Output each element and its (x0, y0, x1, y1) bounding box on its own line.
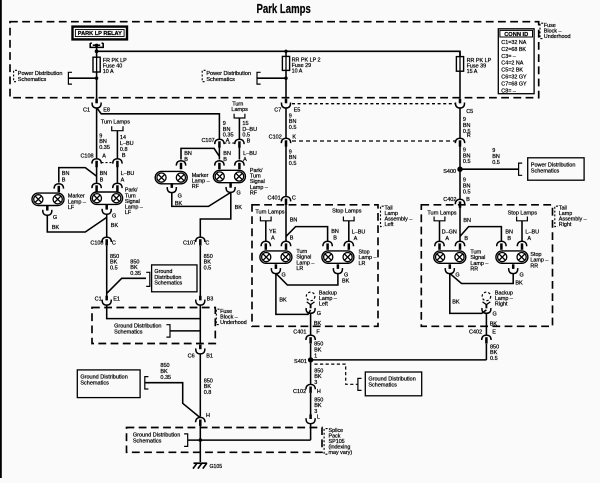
svg-text:C8= –: C8= – (501, 88, 516, 94)
wire: BN B to park lamp LF (96, 167, 98, 183)
svg-text:YE: YE (269, 229, 277, 235)
pin terminal turn RR B (455, 241, 464, 250)
svg-text:C: C (292, 195, 296, 201)
node: fuse 29 tap (284, 50, 287, 53)
label: 9 BN 0.5 (463, 178, 471, 196)
connector C402 pin B (443, 197, 470, 208)
svg-text:BN: BN (223, 151, 231, 157)
fuse 29 RR PK LP 2 (282, 56, 320, 74)
connector C108 pin B (113, 159, 122, 168)
wire: D-GN A (439, 221, 441, 242)
svg-text:L–BU: L–BU (243, 151, 257, 157)
label: L-BU A (park RF) (243, 151, 257, 163)
connector C102 pin H (293, 384, 321, 395)
wire: 9 BN 0.5 to C401 (285, 147, 287, 197)
svg-text:0.5: 0.5 (490, 356, 498, 362)
wire: BN B to park lamp RF (218, 147, 220, 160)
backup lamp left (reference) (306, 292, 315, 313)
svg-text:L–BU: L–BU (352, 230, 366, 236)
svg-text:Turn Lamps: Turn Lamps (101, 119, 130, 125)
dashed reference to GDS box (314, 364, 357, 384)
label: 850 BK 0.5 (490, 344, 499, 362)
svg-text:Left: Left (385, 222, 394, 228)
label: Park/Turn Signal Lamp - LF (125, 188, 143, 216)
label: YE A (269, 229, 277, 242)
label box: Power Distribution Schematics (right) (519, 158, 585, 180)
connector C108 pin A (80, 153, 106, 167)
wire: S400 branch to PDS box (460, 168, 519, 170)
svg-text:G: G (282, 272, 286, 278)
splice pack dashed box (127, 428, 323, 453)
connector C107 pin B (235, 139, 244, 148)
park/turn signal lamp LF (91, 192, 123, 204)
stop lamps bracket RR (517, 217, 528, 221)
node: relay output junction (95, 49, 99, 53)
wire: BK stop LR to turn LR (276, 274, 338, 285)
svg-text:B: B (290, 236, 294, 242)
svg-text:BK: BK (342, 279, 350, 285)
wire: left PDS tap (68, 77, 96, 79)
svg-text:C102: C102 (269, 134, 282, 140)
connector C5 (455, 99, 473, 115)
relay contact symbol (90, 43, 103, 52)
wire: L-BU A to park lamp RF (238, 147, 240, 160)
pin terminal turn LR B (281, 241, 290, 250)
svg-text:B: B (333, 236, 337, 242)
stop lamp LR (322, 251, 354, 263)
label box: Ground Distribution Schematics (upper) (146, 265, 197, 292)
label: Turn Signal Lamp - LR (296, 249, 314, 272)
svg-text:G: G (455, 272, 459, 278)
wire: BN branch to stop lamp (286, 227, 328, 242)
connector C401 pin F (293, 329, 320, 343)
wire: BK marker RF to junction (172, 192, 231, 206)
pin terminal stop LR A (344, 241, 353, 250)
svg-text:C402: C402 (443, 197, 456, 203)
label box: Ground Distribution Schematics (S401) (358, 372, 422, 396)
svg-text:B3: B3 (207, 296, 214, 302)
label: 850 BK 0.8 (204, 378, 213, 396)
svg-text:Schematics: Schematics (206, 77, 235, 83)
connector C401 pin C (268, 195, 296, 205)
wire: 850 BK 0.8 down (199, 354, 201, 417)
svg-text:BK: BK (235, 205, 243, 211)
wire: fuse 40 column (96, 51, 98, 99)
label: 9 BN 0.5 (289, 149, 297, 167)
label: 850 BK 3 (314, 368, 323, 386)
label: 850 BK 0.5 (204, 254, 213, 272)
svg-text:B: B (464, 236, 468, 242)
svg-text:C102: C102 (293, 389, 306, 395)
label: Park/Turn Signal Lamp - RF (250, 168, 268, 196)
wire: ground drop (199, 426, 201, 463)
svg-text:L–BU: L–BU (525, 229, 539, 235)
wire: 9 BN 0.5 S400 to C402 (459, 169, 461, 199)
svg-text:G: G (237, 190, 241, 196)
connector C6 pin B1 (188, 345, 213, 360)
svg-text:PARK LP RELAY: PARK LP RELAY (78, 31, 122, 37)
label: Power Distribution Schematics (left) (14, 70, 72, 84)
connector C107 pin A (201, 138, 229, 148)
turn lamps feed bracket (left) (112, 126, 123, 130)
svg-text:A: A (271, 236, 275, 242)
svg-text:BK: BK (490, 321, 498, 327)
connector C1 pin E1 (95, 296, 120, 305)
svg-text:0.8: 0.8 (120, 147, 128, 153)
svg-text:BN: BN (331, 229, 339, 235)
fuse 39 RR PK LP (456, 57, 491, 75)
svg-text:3: 3 (314, 380, 317, 386)
label: D-GN A (442, 229, 457, 242)
svg-text:B: B (62, 177, 66, 183)
wire: 9 BN 0.5 C7 to C102 (285, 108, 287, 139)
stop lamp RR (496, 251, 528, 263)
svg-text:RF: RF (192, 184, 200, 190)
label: Marker Lamp - RF (192, 173, 210, 190)
pin terminal park LF B (92, 183, 101, 192)
svg-text:B1: B1 (206, 353, 213, 359)
svg-text:Lamps: Lamps (231, 107, 248, 113)
pin terminal stop LR B (323, 241, 332, 250)
svg-text:0.35: 0.35 (160, 375, 171, 381)
wire: 9 BN 0.5 R to S400 (459, 147, 461, 170)
label box: Ground Distribution Schematics (lower left) (77, 370, 148, 398)
connector C107 pin C (183, 237, 209, 246)
svg-text:Schematics: Schematics (114, 329, 143, 335)
label: 9 BN 0.5 (branch) (492, 148, 500, 166)
label: 850 BK 0.5 (110, 254, 119, 272)
wire: ground bus inside fuse block (107, 305, 201, 319)
svg-text:C4=2 NA: C4=2 NA (501, 61, 523, 67)
svg-text:1: 1 (314, 353, 317, 359)
wire: G BK down to C402-E (485, 313, 487, 335)
wire: B3 ground down (199, 305, 201, 344)
svg-text:BK: BK (515, 281, 523, 287)
wire: 850 BK 3 to SP105 (310, 393, 312, 415)
label: Fuse Block - Underhood (top right) (540, 23, 570, 40)
svg-text:15 A: 15 A (467, 69, 478, 75)
svg-text:S401: S401 (294, 359, 307, 365)
label: 9 BN 0.5 (463, 148, 471, 166)
scan border line left edge (0, 0, 2, 478)
turn signal lamp RR (434, 251, 466, 263)
wire: 850 BK 0.35 branch to H (145, 383, 200, 418)
ground terminal stop RR (509, 264, 518, 273)
svg-text:may vary): may vary) (329, 450, 353, 456)
label: Tail Lamp Assembly - Left (381, 205, 413, 228)
pin terminal marker LF (54, 184, 63, 193)
node (199, 438, 203, 442)
fuse block underhood dashed box (10, 22, 539, 98)
label: Fuse Block - Underhood (lower) (216, 309, 246, 326)
label: Backup Lamp - Left (319, 290, 337, 307)
svg-text:C2=68 BK: C2=68 BK (501, 47, 526, 53)
connector pin H (196, 413, 210, 426)
label: 850 BK 1 (314, 342, 323, 360)
svg-text:G: G (178, 193, 182, 199)
fuse block underhood lower dashed box (92, 308, 215, 344)
svg-text:E8: E8 (103, 108, 110, 114)
svg-text:D–GN: D–GN (442, 229, 457, 235)
pin terminal turn LR A (261, 241, 270, 250)
svg-text:G: G (53, 215, 57, 221)
pin terminal turn RR A (435, 241, 444, 250)
connector C108 pin C (90, 237, 116, 246)
svg-text:C401: C401 (268, 195, 281, 201)
svg-text:C7: C7 (274, 108, 281, 114)
label: 850 BK 0.35 (160, 363, 171, 381)
pin terminal stop RR A (517, 241, 526, 250)
ground terminal marker RF (167, 183, 176, 192)
svg-text:E: E (492, 329, 496, 335)
ground terminal park RF (226, 183, 235, 192)
turn lamps bracket RR (434, 217, 445, 221)
connector C402 pin E (469, 329, 496, 343)
CONN ID table (498, 29, 534, 95)
svg-text:BN: BN (290, 218, 298, 224)
svg-text:Schematics: Schematics (18, 77, 47, 83)
connector C102 pin R (455, 133, 471, 147)
wire: BN branch to stop lamp RR (460, 227, 501, 242)
svg-text:C5: C5 (466, 109, 473, 115)
svg-text:Schematics: Schematics (154, 280, 182, 286)
wire: 15 D-BU 0.5 (238, 118, 240, 139)
connector C7 pin E5 (274, 99, 300, 114)
svg-text:Right: Right (495, 302, 508, 308)
splice S401 (294, 357, 313, 365)
label: 9 BN 0.35 (99, 133, 110, 151)
label: 9 BN 0.5 (289, 113, 297, 131)
svg-text:C6: C6 (188, 353, 195, 359)
svg-text:A: A (445, 236, 449, 242)
svg-text:G: G (112, 214, 116, 220)
svg-text:Park Lamps: Park Lamps (257, 3, 311, 17)
svg-text:RR: RR (470, 266, 478, 272)
label: Stop Lamp - RR (530, 252, 548, 269)
wire: 850 BK 0.5 down to S401 leg (485, 344, 487, 360)
svg-text:Turn Lamps: Turn Lamps (427, 210, 456, 216)
pin terminal park LF A (113, 183, 122, 192)
wire: S401 to C402-E leg (311, 359, 487, 361)
wire: into splice pack (310, 424, 312, 441)
svg-text:L: L (317, 415, 320, 421)
svg-text:G: G (344, 272, 348, 278)
svg-text:BK: BK (279, 298, 287, 304)
wire: BN main into right box (459, 207, 461, 241)
label: BN B (stop RR) (505, 229, 513, 242)
svg-text:BK: BK (175, 201, 183, 207)
svg-text:C6=32 GY: C6=32 GY (501, 75, 527, 81)
tail lamp assembly left dashed box (252, 205, 378, 326)
wire: BN main into box (285, 204, 287, 241)
turn lamps feed bracket (mid) (234, 114, 245, 118)
label: L-BU A (stop LR) (352, 230, 366, 242)
label: 15 D-BU 0.5 B (242, 121, 257, 145)
wire: G BK down to C401-F (310, 313, 312, 335)
svg-text:Stop Lamps: Stop Lamps (508, 210, 538, 216)
svg-text:Underhood: Underhood (544, 34, 571, 40)
ground terminal turn LR (271, 264, 280, 273)
svg-text:C1=32 NA: C1=32 NA (501, 40, 526, 46)
wire: BK park RF down to C107-C (200, 192, 231, 237)
fuse 40 FR PK LP (93, 57, 127, 75)
svg-text:Left: Left (319, 302, 328, 308)
wire: branch to C107 (97, 108, 220, 139)
ground G105 (193, 463, 222, 470)
ground terminal marker LF (43, 206, 52, 215)
svg-text:Underhood: Underhood (220, 320, 247, 326)
label: BN B (park LF) (100, 171, 108, 183)
svg-text:BK: BK (452, 300, 460, 306)
svg-text:Schematics: Schematics (80, 381, 109, 387)
svg-text:BK: BK (111, 223, 119, 229)
label: L-BU A (stop RR) (525, 229, 539, 242)
pin terminal marker RF (176, 161, 185, 170)
svg-text:C1: C1 (83, 108, 90, 114)
svg-text:0.5: 0.5 (110, 266, 118, 272)
relay K: PARK LP RELAY box (73, 27, 128, 40)
connector pin B3 (196, 296, 214, 305)
svg-text:H: H (317, 389, 321, 395)
svg-text:0.5: 0.5 (289, 161, 297, 167)
svg-text:A: A (354, 236, 358, 242)
svg-text:G: G (493, 311, 497, 317)
svg-text:Stop Lamps: Stop Lamps (332, 209, 362, 215)
connector C107 A-B dashed link (224, 142, 235, 144)
connector pin L (306, 414, 315, 423)
ground terminal park LF (102, 205, 111, 214)
label: BN B (marker LF) (62, 171, 70, 183)
svg-text:0.35: 0.35 (99, 145, 110, 151)
label: 9 BN 0.35 (mid) (223, 121, 234, 139)
svg-text:LF: LF (68, 205, 75, 211)
svg-text:BN: BN (505, 229, 513, 235)
wire: fuse 39 column (459, 51, 461, 98)
svg-text:LF: LF (125, 210, 132, 216)
wire: BK turn LR down to backup (276, 274, 311, 315)
marker lamp LF (32, 193, 64, 205)
connector C108 A-B dashed link (102, 162, 114, 164)
svg-text:C107: C107 (201, 138, 214, 144)
svg-text:K: K (292, 134, 296, 140)
wire: fuse 29 column (285, 51, 287, 98)
wire: BK marker LF to junction (47, 215, 106, 232)
wire: L-BU A to park lamp LF (116, 167, 118, 183)
label: Marker Lamp - LF (68, 194, 86, 211)
label: Backup Lamp - Right (495, 290, 513, 307)
pin terminal stop RR B (497, 241, 506, 250)
ground terminal stop LR (333, 264, 342, 273)
node (95, 77, 98, 80)
svg-text:B: B (466, 197, 470, 203)
label: 850 BK 0.35 (130, 259, 141, 277)
stop lamps bracket LR (343, 217, 354, 221)
marker lamp RF (155, 171, 187, 183)
svg-text:S400: S400 (443, 169, 456, 175)
svg-text:A: A (527, 236, 531, 242)
svg-text:0.35: 0.35 (130, 271, 141, 277)
tail lamp assembly right dashed box (421, 205, 552, 326)
svg-text:10 A: 10 A (103, 69, 114, 75)
wire: 850 BK 0.5 from C108-C (106, 246, 108, 298)
svg-text:BK: BK (314, 321, 322, 327)
svg-text:C401: C401 (293, 329, 306, 335)
wire: 850 BK 0.5 from C107-C (199, 246, 201, 298)
svg-text:C3= –: C3= – (501, 54, 516, 60)
wire: BK park LF down (106, 214, 108, 237)
svg-text:B: B (247, 139, 251, 145)
svg-text:BN: BN (62, 171, 70, 177)
label: Ground Distribution Schematics (bottom) (133, 432, 188, 446)
connector C102 dashed line (292, 140, 455, 142)
connector C102 pin K (269, 134, 297, 146)
turn lamps bracket LR (260, 217, 271, 221)
svg-text:B: B (507, 236, 511, 242)
svg-text:BN: BN (463, 218, 471, 224)
wire: mid PDS tap (257, 77, 286, 79)
svg-text:Turn Lamps: Turn Lamps (255, 209, 284, 215)
svg-text:0.5: 0.5 (204, 266, 212, 272)
label: Turn Signal Lamp - RR (470, 250, 488, 273)
svg-text:BK: BK (52, 225, 60, 231)
svg-text:C: C (112, 241, 116, 247)
svg-text:C402: C402 (469, 329, 482, 335)
wire: 850 BK 3 to C102-H (310, 360, 312, 385)
svg-text:A: A (121, 177, 125, 183)
svg-text:C107: C107 (183, 241, 196, 247)
pin terminal park RF B (215, 161, 224, 170)
svg-text:L–BU: L–BU (121, 171, 135, 177)
ground terminal turn RR (445, 264, 454, 273)
label: BN B (stop LR) (331, 229, 339, 241)
wire: GDS tap (170, 330, 200, 332)
wire: BK turn RR down to backup right (450, 274, 487, 314)
svg-text:C108: C108 (80, 153, 93, 159)
wire: splice pack bus (188, 439, 311, 441)
label: L-BU A (park LF) (121, 171, 135, 183)
svg-text:0.5: 0.5 (289, 125, 297, 131)
wire: BN branch to marker lamp RF (181, 148, 219, 159)
wire: feed bus from relay (97, 51, 460, 56)
backup lamp right (reference) (482, 292, 491, 313)
svg-text:C1: C1 (95, 296, 102, 302)
svg-text:LR: LR (359, 261, 366, 267)
label: Ground Distribution Schematics (inside box) (114, 323, 170, 337)
label: BN B (park RF) (223, 151, 231, 163)
svg-text:BN: BN (100, 171, 108, 177)
label: Power Distribution Schematics (mid) (202, 70, 260, 84)
svg-text:0.5: 0.5 (463, 159, 471, 165)
svg-text:C7=68 GY: C7=68 GY (501, 81, 527, 87)
label: Tail Lamp Assembly - Right (555, 205, 587, 228)
label: 14 L-BU 0.8 B (120, 135, 134, 159)
svg-text:Schematics: Schematics (133, 438, 162, 444)
wire: YE A (265, 221, 267, 242)
svg-text:BN: BN (184, 151, 192, 157)
svg-text:Right: Right (559, 222, 572, 228)
label: BN B (marker RF) (184, 151, 192, 163)
wire: BN branch to marker lamp LF (59, 168, 97, 183)
svg-text:G: G (520, 272, 524, 278)
label: 850 BK 3 (314, 397, 323, 415)
svg-text:C5=2 BK: C5=2 BK (501, 68, 523, 74)
wire: 9 BN 0.35 main to C108 (96, 108, 98, 159)
svg-text:H: H (206, 413, 210, 419)
wire: 850 BK 1 to S401 (310, 344, 312, 358)
svg-text:0.5: 0.5 (463, 189, 471, 195)
svg-text:10 A: 10 A (292, 69, 303, 75)
svg-text:G105: G105 (210, 464, 223, 470)
